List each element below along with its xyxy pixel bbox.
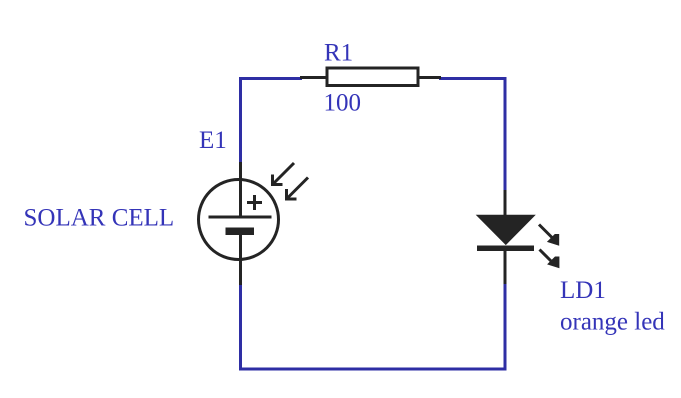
wire top-right (node between R1 and LD1) xyxy=(439,79,505,192)
label LD1 xyxy=(560,277,606,304)
svg-text:E1: E1 xyxy=(199,127,227,154)
circle body xyxy=(199,180,279,260)
lead above xyxy=(239,162,242,180)
wire top-left (node between E1 and R1) xyxy=(241,79,303,164)
solar cell E1 xyxy=(199,162,309,285)
light arrow upper xyxy=(539,225,559,246)
light arrow lower xyxy=(287,178,309,200)
svg-text:SOLAR CELL: SOLAR CELL xyxy=(24,205,175,232)
svg-text:100: 100 xyxy=(324,90,362,117)
light arrow lower xyxy=(540,250,560,269)
internal top lead xyxy=(239,179,242,217)
light arrow upper xyxy=(273,163,295,185)
label E1 xyxy=(199,127,227,154)
internal bottom lead xyxy=(239,234,242,259)
cathode bar xyxy=(477,246,534,252)
label orange led xyxy=(560,309,665,336)
svg-text:orange led: orange led xyxy=(560,309,665,336)
svg-text:R1: R1 xyxy=(324,40,353,67)
label SOLAR CELL xyxy=(24,205,175,232)
positive long plate xyxy=(209,216,272,219)
led LD1 xyxy=(477,190,559,284)
svg-text:LD1: LD1 xyxy=(560,277,606,304)
wire bottom (node between LD1 and E1) xyxy=(241,283,506,369)
resistor R1 xyxy=(300,68,441,86)
value 100 xyxy=(324,90,362,117)
label R1 xyxy=(324,40,353,67)
lead below xyxy=(504,251,507,284)
anode triangle xyxy=(478,216,535,245)
negative short plate xyxy=(226,228,255,236)
lead above xyxy=(504,190,507,217)
plus sign xyxy=(247,201,262,204)
lead below xyxy=(239,258,242,285)
